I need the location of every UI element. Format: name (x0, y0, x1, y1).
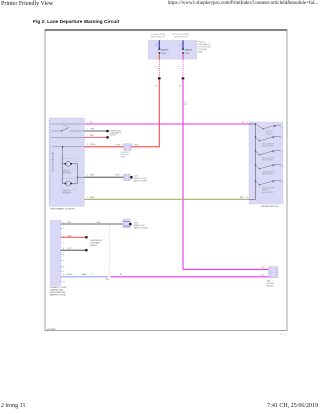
svg-text:10: 10 (63, 274, 65, 276)
switch S3 SET (256, 151, 260, 155)
svg-text:INSTRUMENT CLUSTER: INSTRUMENT CLUSTER (51, 208, 75, 210)
svg-text:1: 1 (87, 197, 88, 199)
svg-text:11: 11 (63, 281, 65, 283)
svg-text:CRUISE ON-OFF: CRUISE ON-OFF (262, 187, 275, 189)
svg-text:RD/L: RD/L (135, 144, 139, 146)
svg-text:4: 4 (87, 144, 88, 146)
svg-text:LDWS OFF: LDWS OFF (62, 191, 70, 193)
forward camera box (50, 220, 61, 286)
svg-text:g021339: g021339 (47, 329, 56, 331)
switch S4 CANCEL (256, 165, 260, 169)
wire: cluster pin4 red to connector (84, 146, 123, 148)
svg-text:SENSOR: SENSOR (90, 245, 98, 247)
wire: dashed red drop from F30 (158, 59, 160, 77)
note: camera view sensor 2 (90, 239, 102, 247)
svg-text:8: 8 (63, 266, 64, 268)
steering switch pod box (249, 122, 283, 204)
cluster internal bus (62, 147, 64, 184)
svg-text:C405: C405 (105, 279, 109, 281)
switch S2 RES (256, 137, 260, 141)
splice dot pin5 (130, 176, 132, 178)
svg-text:1C: 1C (155, 65, 157, 68)
wire: magenta vertical main (182, 79, 184, 269)
switch S5 ON-OFF (256, 181, 260, 185)
fuse F31 arrow (182, 52, 184, 54)
LDW unit caption (266, 280, 274, 287)
svg-text:3: 3 (63, 242, 64, 244)
LDW unit connector (269, 267, 278, 278)
svg-text:LDW HIGH: LDW HIGH (121, 154, 130, 156)
fuse F30 feed wire (158, 40, 160, 49)
splice dot pin2 (106, 130, 108, 132)
page footer left (1, 403, 25, 409)
svg-text:2: 2 (63, 235, 64, 237)
wire: camera pin10 periwinkle (61, 276, 108, 278)
svg-text:BK/L: BK/L (97, 222, 101, 224)
svg-text:1: 1 (63, 222, 64, 224)
svg-text:LDWS ON: LDWS ON (62, 171, 70, 173)
fuse box right-side note text (198, 41, 212, 54)
svg-text:9: 9 (63, 271, 64, 273)
svg-text:4R: 4R (184, 104, 187, 106)
schematic frame (45, 30, 287, 331)
cluster internal wires (51, 123, 84, 125)
page header left (1, 1, 53, 7)
svg-text:BK/O: BK/O (240, 197, 245, 199)
connector on magenta wire (182, 77, 185, 79)
fuse F30 arrow (158, 52, 160, 54)
svg-text:BK/O: BK/O (90, 197, 95, 199)
page header right: url (168, 1, 318, 6)
svg-text:BK/WH: BK/WH (67, 274, 73, 276)
svg-text:5: 5 (63, 254, 64, 256)
svg-text:2: 2 (87, 129, 88, 131)
svg-text:GY/T: GY/T (68, 248, 72, 250)
svg-text:RD/T: RD/T (116, 175, 120, 177)
svg-text:MICRO COMPUTER UNIT: MICRO COMPUTER UNIT (53, 152, 55, 172)
fuse box label right (2 lines) (173, 33, 190, 38)
wire: cluster pin7 stub red (84, 136, 106, 138)
svg-text:LDW ON: LDW ON (266, 131, 273, 133)
wire: camera pin1 (61, 223, 123, 225)
svg-text:RD/L: RD/L (117, 144, 121, 146)
svg-text:6: 6 (63, 260, 64, 262)
svg-text:15A F30: 15A F30 (161, 49, 169, 52)
inline connector dashed line (108, 224, 110, 277)
svg-text:JUNCTION BLOCK: JUNCTION BLOCK (174, 37, 189, 39)
fuse box (junction block) (148, 40, 197, 59)
svg-text:RES(+) SWITCH: RES(+) SWITCH (262, 143, 275, 145)
svg-text:SWITCH: SWITCH (262, 190, 269, 192)
svg-text:(CRUISE SWITCH): (CRUISE SWITCH) (261, 206, 279, 208)
svg-text:(IF EQUIPPED): (IF EQUIPPED) (262, 146, 274, 148)
svg-text:SET(-) SWITCH: SET(-) SWITCH (262, 157, 274, 159)
svg-text:4-DR: 4-DR (134, 176, 139, 178)
wire: red connector to riser (131, 146, 159, 148)
wire: cluster pin2 stub (84, 130, 106, 132)
indicator tie line (77, 164, 79, 184)
svg-text:RD/LG: RD/LG (90, 144, 96, 146)
svg-text:MAKE UP SIGNAL: MAKE UP SIGNAL (134, 227, 148, 230)
svg-text:4: 4 (63, 248, 64, 250)
wire: cluster pin5 to connector (84, 176, 123, 178)
svg-text:BK/L: BK/L (68, 222, 72, 224)
svg-text:3: 3 (87, 122, 88, 124)
figure title (33, 20, 119, 25)
svg-text:1B: 1B (178, 66, 180, 68)
page footer right (267, 403, 318, 409)
svg-text:5: 5 (87, 175, 88, 177)
splice dot camera pin2 (85, 236, 87, 238)
svg-text:BK/Y: BK/Y (90, 175, 95, 177)
fuse box label left (2 lines) (151, 33, 166, 38)
svg-text:1: 1 (247, 122, 248, 124)
svg-text:JUNCTION BLOCK: JUNCTION BLOCK (151, 37, 166, 39)
svg-text:G00233: G00233 (279, 334, 287, 336)
wire: camera pin3 stub (61, 249, 85, 251)
svg-text:CABIN: CABIN (198, 51, 204, 54)
svg-text:LDW WHCT: LDW WHCT (121, 152, 130, 154)
svg-text:SWITCH: SWITCH (266, 133, 273, 135)
svg-text:CAMERA VIEW: CAMERA VIEW (110, 130, 122, 133)
switch S1 LDW ON (256, 124, 264, 129)
svg-text:(IF EQUIPPED): (IF EQUIPPED) (262, 174, 274, 176)
cluster internal switch (51, 130, 62, 132)
LDWS OFF indicator (61, 179, 76, 190)
svg-text:WARNING SYSTEM): WARNING SYSTEM) (50, 293, 67, 296)
wire: magenta elbow to LDW unit (183, 268, 269, 270)
svg-text:WH/B: WH/B (82, 274, 87, 276)
svg-text:7: 7 (87, 135, 88, 137)
LDWS ON indicator (61, 158, 76, 169)
svg-text:F31: F31 (180, 44, 182, 47)
wire: cluster pin1 olive to switch pod (84, 198, 249, 200)
svg-text:2: 2 (122, 144, 123, 146)
splice dot pin7 (106, 136, 108, 138)
svg-text:HOT IN ON OR START: HOT IN ON OR START (173, 33, 190, 36)
inline connector C4 (striped) (123, 219, 130, 228)
wire: magenta run to LDW unit (110, 276, 268, 278)
svg-text:RD/L: RD/L (90, 135, 94, 137)
svg-text:2: 2 (63, 228, 64, 230)
svg-text:4R: 4R (179, 85, 182, 87)
svg-text:10: 10 (246, 197, 248, 199)
svg-text:F30: F30 (156, 44, 158, 47)
inline connector C2 (124, 144, 132, 151)
wire: camera pin2 red stub (61, 236, 85, 238)
svg-text:(IF EQUIPPED): (IF EQUIPPED) (262, 160, 274, 162)
instrument cluster box (49, 118, 84, 207)
wire: magenta row cluster pin3 to switch pod (84, 123, 249, 125)
svg-text:SENSOR: SENSOR (110, 135, 118, 137)
camera unconnected pin numbers (63, 228, 65, 283)
camera caption (50, 286, 67, 297)
svg-text:(FRONT): (FRONT) (266, 285, 273, 287)
pod bus (255, 124, 257, 199)
connector on red wire (158, 77, 161, 79)
svg-text:HOT AT ALL TIMES: HOT AT ALL TIMES (151, 33, 165, 36)
inline connector C3 (124, 174, 131, 180)
svg-text:4R: 4R (120, 274, 123, 276)
fuse F31 feed wire (182, 40, 184, 49)
wire: red vertical to corner (158, 79, 160, 147)
svg-text:4R: 4R (155, 85, 158, 87)
svg-text:4: 4 (92, 274, 93, 276)
note: camera view sensor (110, 130, 122, 137)
svg-text:(IF EQUIPPED): (IF EQUIPPED) (262, 192, 274, 194)
svg-text:YE/B: YE/B (90, 129, 95, 131)
svg-text:2: 2 (132, 144, 133, 146)
splice dot camera pin3 (85, 249, 87, 251)
wire: dashed magenta drop from F31 (182, 59, 184, 77)
svg-text:15A F31: 15A F31 (185, 49, 193, 52)
